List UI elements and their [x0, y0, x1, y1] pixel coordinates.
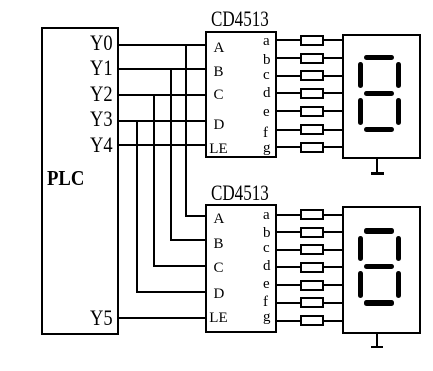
segment g (DS2): [364, 264, 395, 269]
wire Y0 to U1 A: [118, 44, 206, 46]
segment c (DS2): [396, 271, 401, 298]
wire R14 to DS2 g: [323, 320, 343, 322]
wire U1 a to R1: [276, 39, 301, 41]
pin label A (U2): [214, 212, 225, 227]
wire U2 a to R8: [276, 214, 301, 216]
wire U2 pin B stub: [170, 239, 207, 241]
wire U2 c to R10: [276, 249, 301, 251]
wire U2 b to R9: [276, 231, 301, 233]
pin label LE (U2): [209, 311, 227, 326]
pin label Y0 (PLC): [90, 32, 113, 54]
pin label Y5 (PLC): [90, 307, 113, 329]
wire Y0 branch down to U2 A: [185, 44, 187, 217]
pin label e (U2): [263, 277, 270, 292]
resistor R8: [300, 209, 324, 220]
wire Y2 to U1 C: [118, 94, 206, 96]
wire U1 e to R5: [276, 110, 301, 112]
pin label c (U1): [263, 68, 270, 83]
wire Y2 branch down to U2 C: [153, 94, 155, 268]
resistor R1: [300, 35, 324, 46]
wire Y3 branch down to U2 D: [136, 120, 138, 294]
wire U1 c to R3: [276, 75, 301, 77]
pin label B (U1): [214, 65, 224, 80]
wire R7 to DS1 g: [323, 146, 343, 148]
IC U1 CD4513 box: [205, 31, 277, 158]
wire U1 g to R7: [276, 146, 301, 148]
resistor R6: [300, 124, 324, 135]
pin label A (U1): [214, 41, 225, 56]
wire U2 d to R11: [276, 266, 301, 268]
pin label D (U1): [214, 118, 225, 133]
wire R11 to DS2 d: [323, 266, 343, 268]
wire Y1 branch down to U2 B: [170, 68, 172, 242]
wire Y4 to U1 LE: [118, 144, 206, 146]
pin label LE (U1): [209, 142, 227, 157]
segment g (DS1): [364, 91, 395, 96]
wire U2 e to R12: [276, 284, 301, 286]
pin label Y1 (PLC): [90, 57, 113, 79]
wire R13 to DS2 f: [323, 302, 343, 304]
wire R8 to DS2 a: [323, 214, 343, 216]
wire R3 to DS1 c: [323, 75, 343, 77]
segment d (DS2): [364, 300, 395, 306]
pin label f (U2): [263, 295, 268, 310]
wire U1 d to R4: [276, 92, 301, 94]
resistor R12: [300, 280, 324, 291]
wire Y1 to U1 B: [118, 68, 206, 70]
resistor R10: [300, 244, 324, 255]
PLC box: [41, 27, 119, 335]
wire U1 b to R2: [276, 57, 301, 59]
pin label a (U1): [263, 34, 270, 49]
display DS2 box: [342, 206, 422, 334]
wire U2 pin A stub: [185, 215, 207, 217]
resistor R9: [300, 227, 324, 238]
wire R4 to DS1 d: [323, 92, 343, 94]
wire R10 to DS2 c: [323, 249, 343, 251]
segment e (DS1): [358, 98, 363, 125]
segment f (DS2): [358, 236, 363, 261]
resistor R5: [300, 106, 324, 117]
wire Y3 to U1 D: [118, 120, 206, 122]
wire U2 g to R14: [276, 320, 301, 322]
pin label d (U2): [263, 259, 271, 274]
wire R12 to DS2 e: [323, 284, 343, 286]
segment f (DS1): [358, 62, 363, 88]
segment b (DS2): [396, 236, 401, 261]
resistor R4: [300, 88, 324, 99]
pin label Y2 (PLC): [90, 83, 113, 105]
pin label C (U1): [214, 88, 224, 103]
wire R5 to DS1 e: [323, 110, 343, 112]
wire R1 to DS1 a: [323, 39, 343, 41]
segment e (DS2): [358, 271, 363, 298]
resistor R14: [300, 315, 324, 326]
wire U2 f to R13: [276, 302, 301, 304]
wire Y5 to U2 LE: [118, 317, 206, 319]
pin label b (U1): [263, 53, 271, 68]
resistor R11: [300, 262, 324, 273]
wire U2 pin D stub: [136, 291, 206, 293]
segment b (DS1): [396, 62, 401, 88]
pin label B (U2): [214, 237, 224, 252]
resistor R3: [300, 70, 324, 81]
pin label b (U2): [263, 226, 271, 241]
display DS1 box: [342, 34, 422, 160]
pin label g (U2): [263, 310, 271, 325]
segment d (DS1): [364, 127, 395, 133]
label CD4513 (U2): [211, 182, 269, 204]
ground GND2 bar: [371, 346, 383, 349]
pin label C (U2): [214, 261, 224, 276]
pin label Y4 (PLC): [90, 134, 113, 156]
segment a (DS2): [364, 228, 395, 234]
segment c (DS1): [396, 98, 401, 125]
IC U2 CD4513 box: [205, 204, 277, 334]
segment a (DS1): [364, 55, 395, 60]
pin label D (U2): [214, 287, 225, 302]
resistor R13: [300, 297, 324, 308]
wire R9 to DS2 b: [323, 231, 343, 233]
ground GND1 bar: [371, 172, 384, 175]
wire U1 f to R6: [276, 129, 301, 131]
PLC label: [47, 168, 84, 189]
resistor R7: [300, 142, 324, 153]
ground GND1 stem: [376, 158, 378, 174]
pin label f (U1): [263, 126, 268, 141]
pin label e (U1): [263, 105, 270, 120]
pin label c (U2): [263, 241, 270, 256]
resistor R2: [300, 53, 324, 64]
ground GND2 stem: [376, 332, 378, 348]
pin label Y3 (PLC): [90, 108, 113, 130]
label CD4513 (U1): [211, 8, 269, 30]
wire U2 pin C stub: [153, 265, 207, 267]
wire R6 to DS1 f: [323, 129, 343, 131]
pin label a (U2): [263, 208, 270, 223]
wire R2 to DS1 b: [323, 57, 343, 59]
pin label d (U1): [263, 86, 271, 101]
pin label g (U1): [263, 141, 271, 156]
